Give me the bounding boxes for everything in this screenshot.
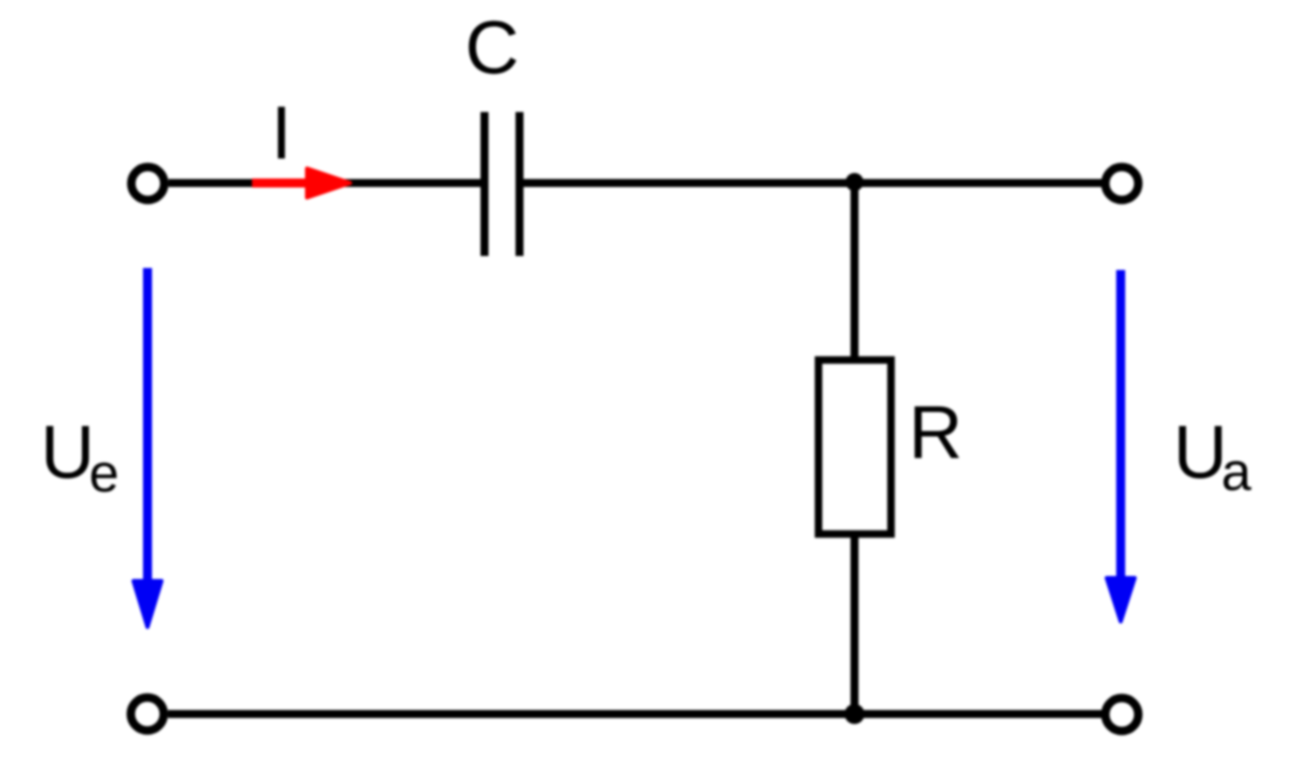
svg-text:C: C	[465, 5, 519, 89]
terminal: input bottom-left	[131, 698, 164, 731]
node A: top junction dot	[846, 173, 864, 191]
svg-text:U: U	[41, 410, 95, 494]
svg-text:U: U	[1173, 410, 1227, 494]
terminal: output bottom-right	[1105, 698, 1138, 731]
voltage arrow Ue (blue) head	[134, 581, 162, 627]
voltage arrow Ua (blue) shaft	[1116, 270, 1125, 579]
wire: node A down to resistor top	[851, 182, 859, 362]
terminal: input top-left	[131, 167, 164, 200]
current arrow I (red) head	[307, 169, 350, 198]
node B: bottom junction dot	[845, 704, 865, 724]
svg-text:a: a	[1221, 442, 1252, 502]
terminal: output top-right	[1105, 167, 1138, 200]
voltage arrow Ua (blue) head	[1107, 578, 1135, 622]
svg-text:I: I	[271, 90, 292, 174]
wire: capacitor right plate to output terminal (through node A)	[523, 179, 1102, 187]
wire: resistor bottom to node B	[851, 532, 859, 714]
capacitor C right plate	[516, 112, 524, 256]
voltage arrow Ue (blue) shaft	[143, 268, 152, 586]
current arrow I (red) shaft	[252, 179, 315, 188]
svg-text:e: e	[89, 444, 119, 504]
capacitor C left plate	[481, 112, 489, 256]
wire: input terminal to capacitor left plate	[169, 179, 482, 187]
svg-text:R: R	[909, 390, 963, 474]
wire: bottom return (input to output)	[168, 710, 1102, 718]
resistor R body	[819, 360, 892, 534]
